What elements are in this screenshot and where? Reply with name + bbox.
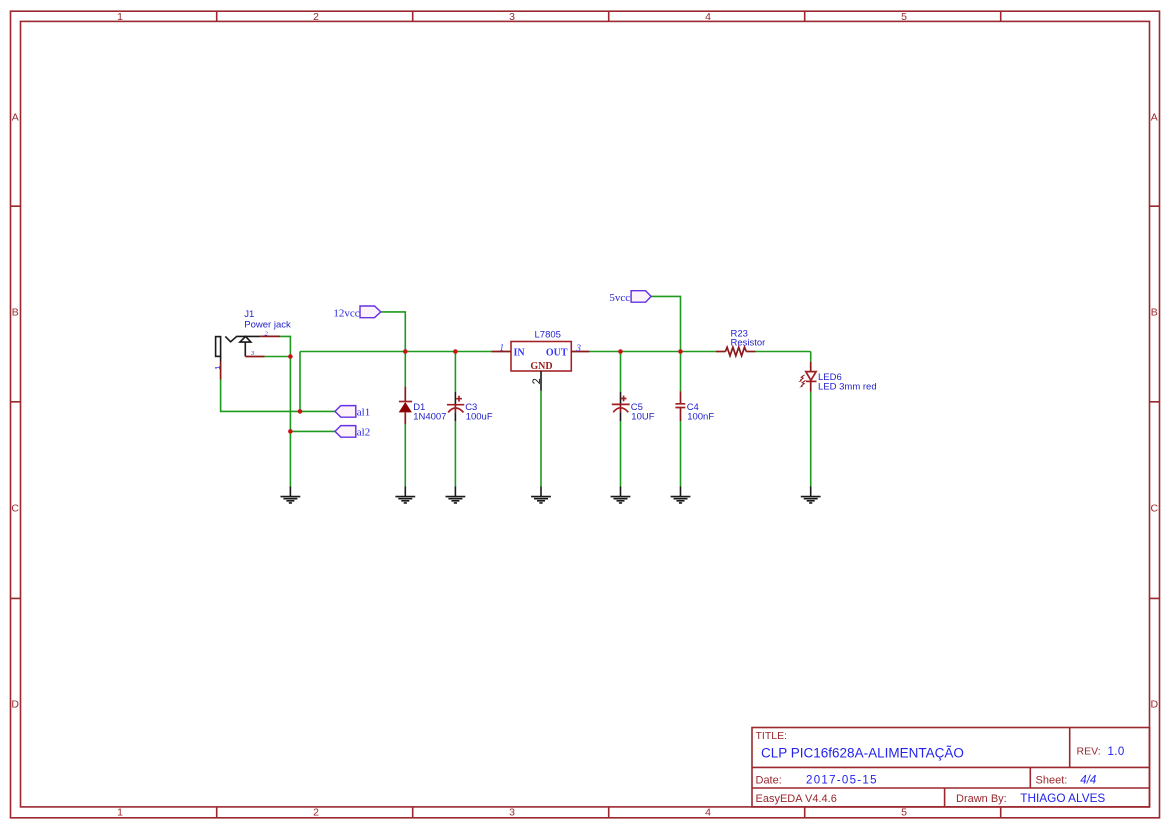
wire U1 gnd (540, 391, 542, 487)
svg-text:1: 1 (117, 11, 123, 23)
frame column numbers top (117, 11, 907, 23)
node al2 junction (288, 429, 293, 434)
capacitor C5 10UF (612, 392, 655, 423)
ground GND-D1 (395, 486, 415, 503)
wire 5vcc feed (651, 296, 680, 351)
wire al2 (290, 430, 335, 432)
title block Sheet divider (1029, 767, 1031, 788)
svg-text:B: B (1151, 307, 1158, 319)
svg-text:C: C (11, 503, 19, 515)
svg-text:D: D (1151, 699, 1159, 711)
svg-text:5: 5 (901, 806, 907, 818)
svg-text:2: 2 (313, 11, 319, 23)
wire LED6 top (810, 352, 812, 362)
svg-text:IN: IN (514, 347, 526, 358)
wire C5 top (620, 352, 622, 392)
capacitor C4 100nF (675, 391, 714, 422)
svg-text:EasyEDA V4.4.6: EasyEDA V4.4.6 (756, 793, 837, 805)
title block row dividers (752, 767, 1150, 788)
svg-text:5: 5 (901, 11, 907, 23)
frame right ticks (1150, 206, 1160, 598)
ground GND-C3 (446, 486, 466, 503)
svg-text:LED 3mm red: LED 3mm red (818, 381, 877, 392)
frame bottom ticks (217, 807, 1001, 818)
net label al2 (335, 426, 370, 439)
title block outline (752, 728, 1150, 807)
TITLEBLOCK (752, 728, 1150, 807)
frame top ticks (217, 11, 1001, 21)
svg-text:5vcc: 5vcc (609, 292, 630, 304)
wire rail to al1 (299, 352, 301, 412)
frame column numbers bottom (117, 806, 907, 818)
svg-text:TITLE:: TITLE: (756, 730, 788, 742)
svg-text:C: C (1151, 503, 1159, 515)
svg-text:A: A (12, 112, 19, 124)
wire C4 bottom (680, 421, 682, 486)
led LED6 (798, 362, 876, 393)
frame left ticks (11, 206, 21, 598)
svg-text:1N4007: 1N4007 (413, 412, 446, 423)
wire node to ground (289, 357, 291, 487)
svg-text:1: 1 (500, 343, 505, 353)
svg-text:2017-05-15: 2017-05-15 (806, 774, 878, 786)
svg-text:3: 3 (509, 11, 515, 23)
svg-text:L7805: L7805 (535, 330, 561, 341)
svg-text:al2: al2 (357, 427, 370, 439)
node 12vcc-D1 junction (403, 349, 408, 354)
svg-text:3: 3 (509, 806, 515, 818)
connector J1 power jack (215, 309, 291, 379)
svg-text:1.0: 1.0 (1108, 746, 1125, 758)
wire LED6 bottom (810, 392, 812, 487)
svg-text:100uF: 100uF (466, 412, 493, 423)
wire C4 top (680, 352, 682, 392)
svg-text:4/4: 4/4 (1080, 775, 1096, 787)
node rail-al1 junction (298, 409, 303, 414)
ground GND-J1-al2 (281, 486, 301, 503)
net flag 12vcc (333, 306, 380, 320)
ground GND-U1 (531, 486, 551, 503)
ground GND-C5 (611, 486, 631, 503)
svg-text:12vcc: 12vcc (333, 308, 359, 320)
svg-text:Resistor: Resistor (731, 338, 766, 349)
ground GND-C4 (671, 486, 691, 503)
title block DrawnBy divider (944, 788, 946, 807)
svg-text:100nF: 100nF (687, 412, 714, 423)
wire C5 bottom (620, 421, 622, 486)
title block REV divider (1069, 728, 1071, 768)
wire J1 pin3 to node (265, 356, 291, 358)
node J1 pin2-pin3 junction (288, 354, 293, 359)
svg-text:B: B (12, 307, 19, 319)
svg-text:3: 3 (575, 343, 581, 353)
svg-text:10UF: 10UF (631, 412, 654, 423)
svg-text:CLP PIC16f628A-ALIMENTAÇÃO: CLP PIC16f628A-ALIMENTAÇÃO (761, 746, 964, 761)
SCHEMATIC (215, 291, 877, 503)
svg-text:1: 1 (117, 806, 123, 818)
wire 12vcc feed (381, 312, 406, 352)
frame row letters left (11, 112, 19, 711)
wire main rail right (756, 351, 811, 353)
wire J1 pin2 to node (280, 336, 290, 356)
wire main rail left (300, 351, 491, 353)
svg-text:al1: al1 (357, 407, 370, 419)
wire D1 top (404, 352, 406, 387)
node C3 junction (453, 349, 458, 354)
svg-text:GND: GND (530, 361, 552, 372)
svg-text:Sheet:: Sheet: (1036, 774, 1068, 786)
wire al1 (221, 380, 335, 412)
net flag 5vcc (609, 291, 651, 305)
net label al1 (335, 406, 370, 419)
svg-text:4: 4 (705, 11, 711, 23)
svg-text:THIAGO ALVES: THIAGO ALVES (1020, 791, 1105, 805)
svg-text:Date:: Date: (756, 774, 782, 786)
svg-text:Drawn By:: Drawn By: (956, 793, 1007, 805)
svg-text:2: 2 (313, 806, 319, 818)
svg-text:OUT: OUT (546, 347, 568, 358)
capacitor C3 100uF (447, 392, 493, 423)
ground GND-LED6 (801, 486, 821, 503)
svg-text:Power jack: Power jack (244, 319, 291, 330)
wire C3 top (454, 352, 456, 392)
wire C3 bottom (454, 421, 456, 486)
frame row letters right (1151, 112, 1159, 711)
node 5vcc-C4 junction (678, 349, 683, 354)
node C5 junction (618, 349, 623, 354)
wire main rail mid (590, 351, 716, 353)
svg-text:A: A (1151, 112, 1158, 124)
regulator U1 L7805 (491, 330, 589, 391)
svg-text:REV:: REV: (1077, 746, 1101, 758)
resistor R23 (716, 329, 766, 356)
svg-text:D: D (11, 699, 19, 711)
svg-text:4: 4 (705, 806, 711, 818)
diode D1 1N4007 (399, 387, 447, 424)
wire D1 bottom (404, 424, 406, 486)
